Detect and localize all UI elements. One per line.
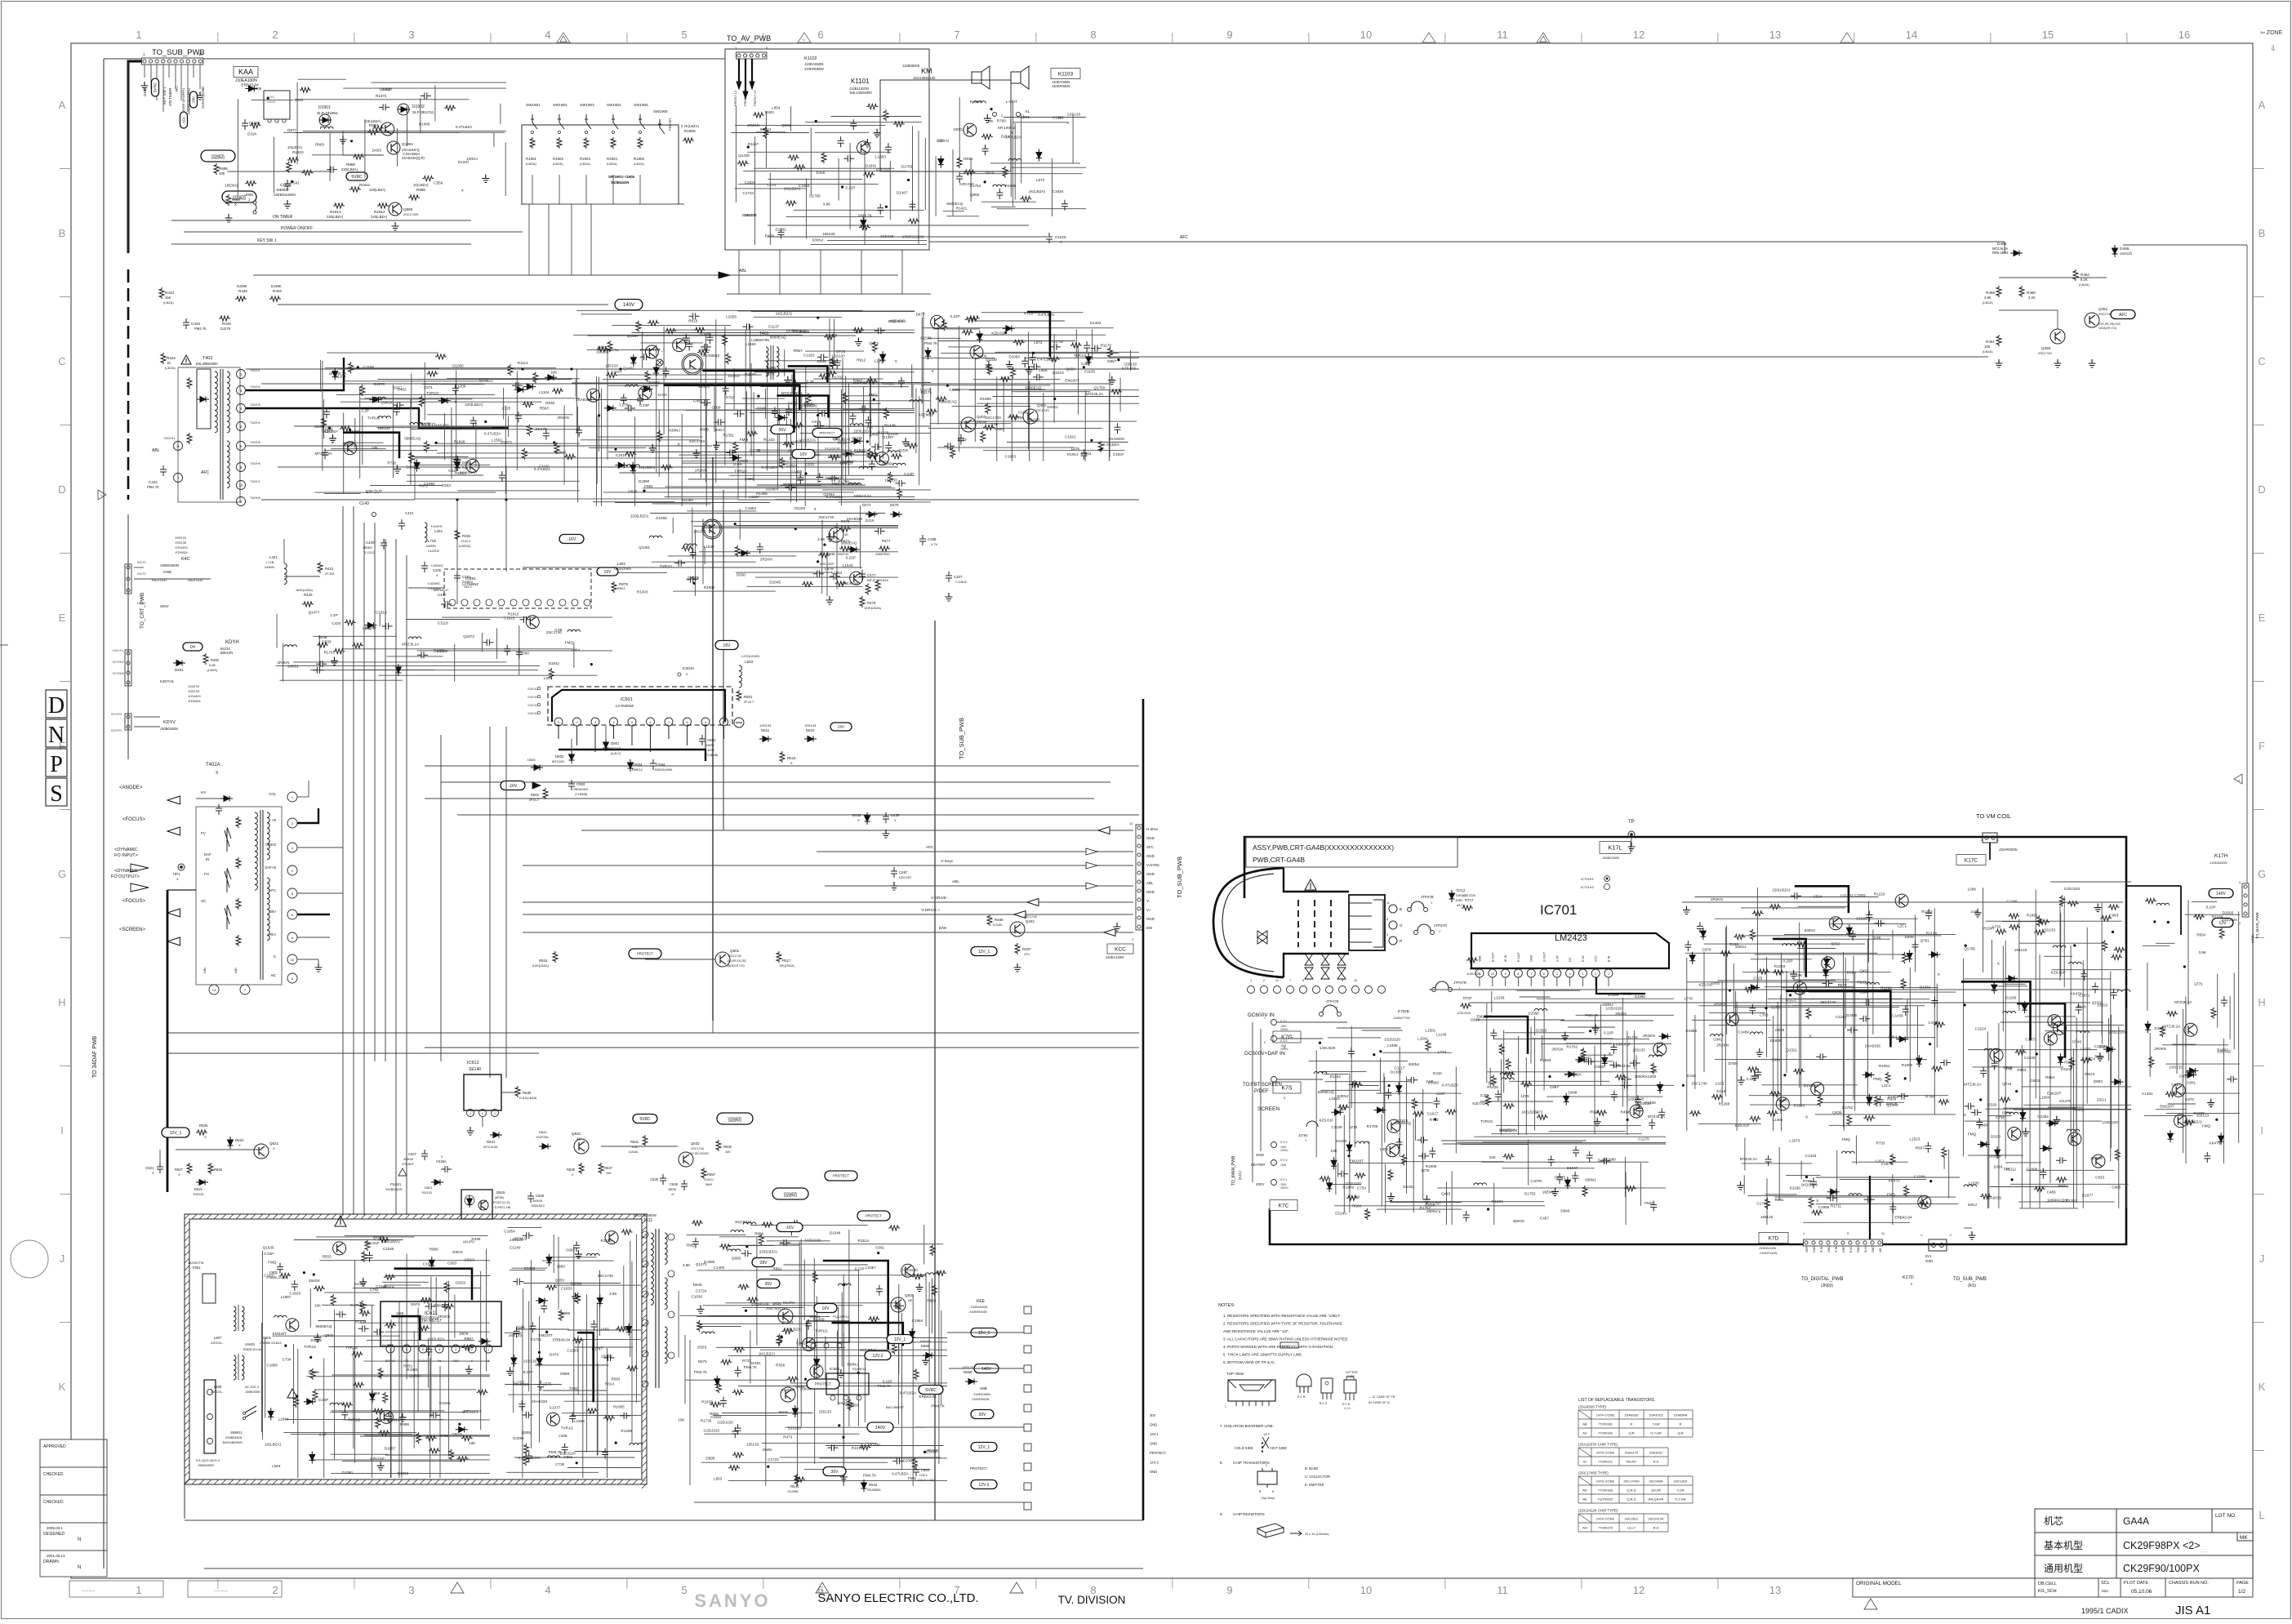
capacitor C479 [830, 573, 840, 580]
resistor [533, 372, 538, 383]
wire [331, 1473, 490, 1475]
wire [413, 1331, 415, 1448]
wire [778, 408, 780, 467]
svg-text:+B: +B [272, 818, 276, 822]
wire q501 [645, 959, 715, 960]
wire [360, 1322, 490, 1324]
thick +B line [246, 358, 344, 390]
wire [385, 1275, 490, 1277]
left block border top [104, 58, 725, 60]
wire [783, 1264, 868, 1266]
svg-text:2R2KN: 2R2KN [760, 557, 772, 561]
resistor [301, 171, 313, 176]
svg-text:PROTECT: PROTECT [1150, 1451, 1166, 1455]
svg-text:AFC: AFC [1146, 845, 1154, 849]
wire [342, 648, 572, 650]
svg-text:(LBZA): (LBZA) [580, 162, 590, 166]
svg-text:TO_SUB_PWB: TO_SUB_PWB [1176, 856, 1183, 898]
resistor R521 [612, 581, 616, 593]
T402 pin 8 [237, 497, 246, 506]
svg-text:J: J [1439, 929, 1440, 933]
svg-text:G: G [2258, 868, 2266, 880]
svg-text:..........: .......... [82, 1588, 96, 1593]
resistor [279, 1273, 291, 1278]
svg-text:10(LBZA): 10(LBZA) [287, 145, 303, 149]
svg-text:AFC: AFC [201, 470, 209, 475]
svg-text:7. ISOLATION BOARDER LINE.: 7. ISOLATION BOARDER LINE. [1220, 1424, 1274, 1428]
svg-text:630NJ: 630NJ [847, 1362, 857, 1366]
svg-text:10K(LBZA): 10K(LBZA) [779, 964, 795, 968]
svg-text:8.: 8. [1220, 1461, 1223, 1465]
svg-text:D502: D502 [555, 754, 564, 759]
wire [367, 1339, 474, 1341]
svg-text:R890: R890 [700, 427, 709, 431]
svg-text:C1582: C1582 [745, 506, 757, 510]
svg-text:4: 4 [545, 29, 550, 41]
svg-text:140V: 140V [981, 1367, 991, 1372]
svg-text:2R2KN: 2R2KN [1643, 1034, 1655, 1038]
wire [601, 389, 603, 506]
svg-text:D1168: D1168 [1790, 1186, 1801, 1190]
wire [1119, 378, 1121, 412]
svg-text:C1752: C1752 [1842, 1106, 1854, 1110]
svg-text:PROTECT: PROTECT [833, 1174, 849, 1178]
svg-text:C1982: C1982 [424, 482, 435, 486]
wire [316, 1236, 415, 1238]
junction [291, 180, 293, 183]
svg-text:C1629: C1629 [290, 1292, 301, 1296]
wire [719, 1236, 799, 1238]
svg-text:12V_1: 12V_1 [978, 1445, 990, 1450]
svg-text:AFC: AFC [926, 845, 934, 850]
wire [1043, 393, 1044, 461]
wire [697, 1270, 859, 1271]
svg-text:R1428: R1428 [1487, 1085, 1498, 1089]
wire [417, 1307, 419, 1412]
resistor [1020, 197, 1031, 202]
svg-text:R1913: R1913 [601, 1239, 612, 1243]
svg-text:220(LBZA): 220(LBZA) [371, 215, 388, 219]
wire [736, 525, 898, 527]
wire [318, 635, 320, 666]
svg-text:2.2P: 2.2P [362, 408, 369, 412]
svg-text:1SS133: 1SS133 [2170, 1065, 2183, 1069]
wire [312, 154, 382, 156]
wire [931, 1279, 932, 1334]
svg-text:COL: COL [269, 792, 276, 796]
svg-text:MTZJ6.2A: MTZJ6.2A [1740, 1157, 1758, 1161]
svg-text:Q600: Q600 [324, 1333, 334, 1337]
capacitor [865, 416, 871, 427]
svg-text:2FJ1K: 2FJ1K [325, 572, 335, 576]
svg-text:FRONT V2: FRONT V2 [753, 90, 757, 106]
wire [702, 1305, 862, 1306]
svg-text:VBB: VBB [1479, 955, 1482, 962]
capacitor [421, 92, 431, 99]
svg-text:155133: 155133 [1632, 1048, 1645, 1052]
capacitor [735, 1366, 741, 1377]
svg-text:7T200220: 7T200220 [1598, 1526, 1613, 1530]
svg-text:K: K [59, 1381, 66, 1393]
wire [528, 1301, 530, 1391]
wire [689, 1340, 691, 1485]
svg-text:GND: GND [1146, 917, 1155, 921]
capacitor [786, 405, 792, 416]
svg-text:12V_1: 12V_1 [978, 1331, 990, 1336]
svg-text:ABL: ABL [202, 967, 207, 973]
svg-text:C1286: C1286 [2006, 900, 2018, 904]
wire [816, 1297, 817, 1386]
capacitor [341, 1408, 348, 1419]
resistor [735, 545, 740, 557]
zone tick bottom [1717, 1578, 1719, 1589]
wire [389, 1348, 391, 1478]
wire [705, 403, 707, 506]
wire [353, 670, 434, 671]
svg-text:1: 1 [1920, 1234, 1922, 1237]
svg-text:R887: R887 [369, 123, 378, 127]
wire [1130, 350, 1132, 371]
wire [516, 372, 518, 471]
svg-text:D1458: D1458 [656, 516, 667, 520]
inductor [649, 536, 662, 538]
svg-text:12V-2: 12V-2 [978, 1483, 989, 1488]
svg-text:FMQ: FMQ [1644, 1201, 1653, 1205]
wire [722, 1413, 813, 1414]
junction [857, 1372, 860, 1374]
wire [948, 346, 976, 348]
svg-text:FMQ: FMQ [1873, 1077, 1882, 1081]
svg-text:(T,LBWB): (T,LBWB) [575, 793, 587, 796]
capacitor [640, 354, 651, 360]
svg-text:FMQ: FMQ [268, 1261, 277, 1265]
supply wire [832, 1323, 903, 1346]
inductor [547, 1456, 560, 1458]
stadium 28Vb [830, 723, 852, 731]
svg-text:(T,LBWB): (T,LBWB) [705, 754, 718, 757]
svg-text:MTZJ6.2A: MTZJ6.2A [1086, 392, 1104, 396]
svg-text:V+: V+ [1146, 908, 1151, 912]
svg-text:9.: 9. [1220, 1512, 1223, 1516]
junction [817, 414, 819, 416]
zone tick top [626, 33, 628, 43]
svg-text:L401: L401 [1380, 1147, 1389, 1151]
resistor [360, 385, 365, 396]
thick AV wires [739, 59, 752, 93]
svg-text:D1302: D1302 [1090, 321, 1101, 325]
top triangle zone11 [1422, 33, 1435, 42]
wire [331, 448, 385, 450]
wire [575, 379, 576, 397]
transistor [381, 122, 394, 136]
svg-text:D1383: D1383 [1391, 1070, 1402, 1075]
svg-text:KZ0.01F: KZ0.01F [2051, 971, 2066, 975]
svg-text:R769: R769 [997, 119, 1006, 123]
wire [332, 1410, 445, 1412]
wire [995, 351, 1139, 353]
svg-text:6: 6 [817, 29, 823, 41]
resistor [1008, 415, 1019, 420]
wire [382, 1281, 429, 1283]
wire [716, 442, 854, 443]
resistor [884, 407, 889, 419]
wire [668, 382, 670, 498]
IC581 dashed box [444, 569, 591, 608]
svg-text:2SC1740: 2SC1740 [1820, 1000, 1836, 1004]
diode [332, 368, 338, 380]
wire [813, 378, 883, 380]
capacitor [986, 361, 992, 372]
transistor Q501 [715, 952, 730, 967]
svg-text:EU1: EU1 [462, 465, 470, 469]
svg-text:8: 8 [686, 721, 688, 724]
wire [293, 1344, 295, 1424]
resistor [444, 1281, 449, 1293]
svg-text:L422H1: L422H1 [431, 524, 443, 528]
svg-text:2SA1037: 2SA1037 [1649, 1451, 1663, 1455]
svg-text:B: B [59, 227, 66, 239]
svg-text:14: 14 [1906, 29, 1917, 41]
ground [984, 114, 991, 122]
svg-text:DJ390: DJ390 [1428, 1081, 1440, 1085]
svg-text:1SS133: 1SS133 [2120, 251, 2133, 256]
svg-text:NC: NC [1569, 957, 1572, 962]
svg-text:5600EAQ: 5600EAQ [841, 541, 857, 545]
svg-text:1: 1 [494, 1112, 496, 1115]
svg-text:E: E [2259, 612, 2266, 624]
diode [910, 1328, 915, 1341]
svg-text:SW1901/--/1906: SW1901/--/1906 [608, 175, 635, 179]
resistor R515 [553, 951, 558, 963]
wire [714, 383, 715, 432]
svg-text:L421: L421 [269, 555, 278, 559]
svg-text:TO 34DAF PWB: TO 34DAF PWB [92, 1035, 98, 1078]
wire [286, 1419, 443, 1421]
svg-text:0.22P: 0.22P [264, 1252, 274, 1256]
wire [573, 1247, 575, 1417]
svg-text:C1648: C1648 [376, 1284, 387, 1288]
wire [503, 388, 505, 420]
inductor [587, 1253, 600, 1256]
svg-text:PM4.7K: PM4.7K [194, 327, 207, 331]
svg-text:R473: R473 [783, 1435, 792, 1439]
svg-text:TVR1G: TVR1G [561, 1426, 574, 1430]
svg-text:D1405: D1405 [419, 122, 430, 127]
connector K1102 row [737, 52, 767, 59]
svg-text:HEA: HEA [269, 932, 276, 937]
svg-text:14TH CODE: 14TH CODE [1596, 1479, 1615, 1484]
svg-text:TO VM COIL: TO VM COIL [1976, 812, 2011, 820]
resistor [449, 1449, 454, 1461]
svg-text:2SA933S(Q,R): 2SA933S(Q,R) [402, 156, 425, 160]
svg-text:DJ1K: DJ1K [733, 462, 743, 466]
svg-text:LIST OF REPLACEABLE TRANSISTOR: LIST OF REPLACEABLE TRANSISTORS [1578, 1398, 1655, 1403]
svg-text:10K: 10K [1984, 345, 1991, 349]
capacitor [604, 1355, 615, 1361]
svg-text:R562: R562 [682, 383, 691, 387]
svg-text:K7C3: K7C3 [1280, 1141, 1288, 1144]
svg-text:K17D: K17D [1903, 1275, 1914, 1280]
svg-text:C434: C434 [332, 621, 340, 625]
flyback coil secondary [267, 812, 269, 860]
svg-text:C533: C533 [323, 640, 332, 644]
svg-text:C870: C870 [1702, 948, 1711, 952]
svg-text:F601: F601 [193, 1266, 201, 1270]
svg-text:L504: L504 [272, 1464, 281, 1468]
svg-text:C1008: C1008 [2027, 1167, 2038, 1171]
wire [618, 572, 667, 574]
svg-text:X: X [1964, 1113, 1966, 1117]
connector KCC col [1136, 825, 1142, 930]
wire [923, 1225, 925, 1264]
svg-text:⇦ ZONE: ⇦ ZONE [2260, 30, 2283, 36]
svg-text:C: C [1266, 1464, 1268, 1467]
svg-text:6. BOTTOM VIEW OF TR & IC.: 6. BOTTOM VIEW OF TR & IC. [1223, 1360, 1275, 1364]
svg-text:QA,PA: QA,PA [1651, 1488, 1661, 1493]
wire [452, 429, 580, 430]
svg-text:1K(LBZA): 1K(LBZA) [639, 465, 656, 469]
svg-text:630NJ: 630NJ [1337, 1094, 1348, 1098]
svg-text:35V: 35V [779, 428, 787, 433]
top triangle zone4 [557, 33, 570, 42]
wire [935, 156, 937, 216]
svg-text::SO,SR,SS/2SC: :SO,SR,SS/2SC [689, 1152, 710, 1155]
capacitor [909, 200, 915, 211]
svg-text:SANYO: SANYO [694, 1591, 770, 1611]
svg-text:C1837: C1837 [264, 1274, 275, 1278]
wire [768, 178, 862, 180]
svg-text:Q635: Q635 [795, 1385, 804, 1389]
junction [456, 498, 458, 501]
wire [834, 319, 835, 367]
diode D511 [759, 736, 772, 742]
svg-text:机芯: 机芯 [2044, 1515, 2063, 1527]
capacitor [637, 394, 643, 405]
wire [354, 1261, 356, 1463]
resistor [794, 165, 805, 170]
svg-text:基本机型: 基本机型 [2044, 1540, 2083, 1551]
svg-text:Q473: Q473 [869, 341, 879, 345]
resistor [422, 176, 434, 181]
svg-text:C1353: C1353 [524, 1266, 536, 1270]
svg-text:<DYNAMIC: <DYNAMIC [114, 869, 138, 874]
svg-text:12: 12 [1129, 821, 1133, 825]
svg-text:L1145: L1145 [1436, 1032, 1447, 1036]
svg-text:IC501H3: IC501H3 [527, 704, 538, 707]
ground [649, 444, 656, 452]
svg-text:D1371: D1371 [501, 440, 513, 444]
svg-text:R1112: R1112 [518, 361, 528, 365]
wire [639, 175, 641, 204]
wire [613, 726, 615, 739]
junction [521, 367, 523, 370]
inductor L503 [739, 665, 741, 687]
resistor [783, 442, 794, 447]
svg-text:1/2DJ220: 1/2DJ220 [1320, 1046, 1336, 1050]
resistor R1901 [530, 137, 535, 149]
flyback pin 2 DAF+B [287, 865, 297, 875]
wire [858, 1270, 860, 1426]
ground [1006, 361, 1013, 369]
svg-text:R886: R886 [416, 188, 425, 192]
resistor [661, 465, 673, 470]
svg-text:K4CP2: K4CP2 [137, 572, 146, 576]
wire [750, 363, 752, 456]
resistor [349, 362, 354, 373]
zone tick left [60, 1194, 71, 1195]
svg-text:TO:FBT SCREEN: TO:FBT SCREEN [1243, 1083, 1282, 1088]
svg-text:R630: R630 [723, 1145, 732, 1149]
wire [863, 387, 865, 470]
svg-text:DJ1K: DJ1K [532, 1456, 541, 1460]
wire [791, 382, 931, 384]
zone tick left [60, 681, 71, 683]
resistor [572, 1338, 584, 1343]
svg-text:KDYH: KDYH [225, 640, 239, 645]
wire [750, 412, 915, 414]
svg-text:1K: 1K [167, 361, 171, 365]
capacitor C487 [891, 867, 897, 878]
diode [414, 460, 420, 472]
ground [467, 1127, 474, 1135]
svg-text:2SC1740: 2SC1740 [689, 439, 705, 443]
capacitor C635b [660, 1174, 666, 1185]
svg-text:MTZJ6.2A: MTZJ6.2A [329, 372, 347, 376]
svg-text:IC652: IC652 [830, 1367, 840, 1371]
junction [643, 490, 645, 492]
svg-text:C528: C528 [1987, 1102, 1996, 1106]
resistor [908, 219, 919, 224]
junction [615, 1442, 617, 1444]
resistor [376, 1417, 381, 1429]
svg-text:2SC1740: 2SC1740 [1692, 1081, 1708, 1085]
wire [724, 327, 726, 465]
opto LED [467, 1195, 473, 1208]
svg-text:(KEE): (KEE) [2250, 934, 2254, 943]
transistor Q461 [704, 521, 720, 537]
transistor [639, 386, 652, 399]
diode D459 [2112, 245, 2118, 257]
svg-text:R541: R541 [291, 181, 300, 185]
svg-text:R1721: R1721 [531, 1337, 542, 1341]
svg-text:R637: R637 [604, 1166, 613, 1170]
resistor R1906 [683, 138, 694, 143]
arrow AFC [1086, 848, 1097, 855]
diode [456, 1426, 468, 1432]
svg-text:C933: C933 [2095, 1176, 2104, 1180]
svg-text:GND: GND [1925, 1259, 1933, 1263]
svg-text:C609: C609 [712, 406, 721, 410]
svg-text:D471: D471 [862, 503, 871, 507]
wire [390, 1319, 392, 1478]
resistor [549, 668, 554, 679]
svg-text:T402H8: T402H8 [250, 496, 260, 500]
svg-text:DJ390: DJ390 [1536, 1028, 1547, 1032]
T402 resistors [187, 377, 192, 389]
svg-text:C1293: C1293 [2094, 1044, 2106, 1048]
svg-text:1SJ2.2: 1SJ2.2 [461, 539, 471, 543]
svg-text:R640: R640 [790, 1484, 799, 1488]
svg-text:KZ0.01F: KZ0.01F [1122, 366, 1137, 370]
wire [615, 502, 770, 504]
junction [313, 1273, 315, 1275]
diode D510 [804, 736, 817, 742]
svg-text:630NJ: 630NJ [1602, 1003, 1613, 1007]
wire [921, 318, 923, 404]
svg-text:KL: KL [1026, 109, 1030, 113]
wire [921, 385, 1050, 386]
wire [745, 391, 747, 441]
